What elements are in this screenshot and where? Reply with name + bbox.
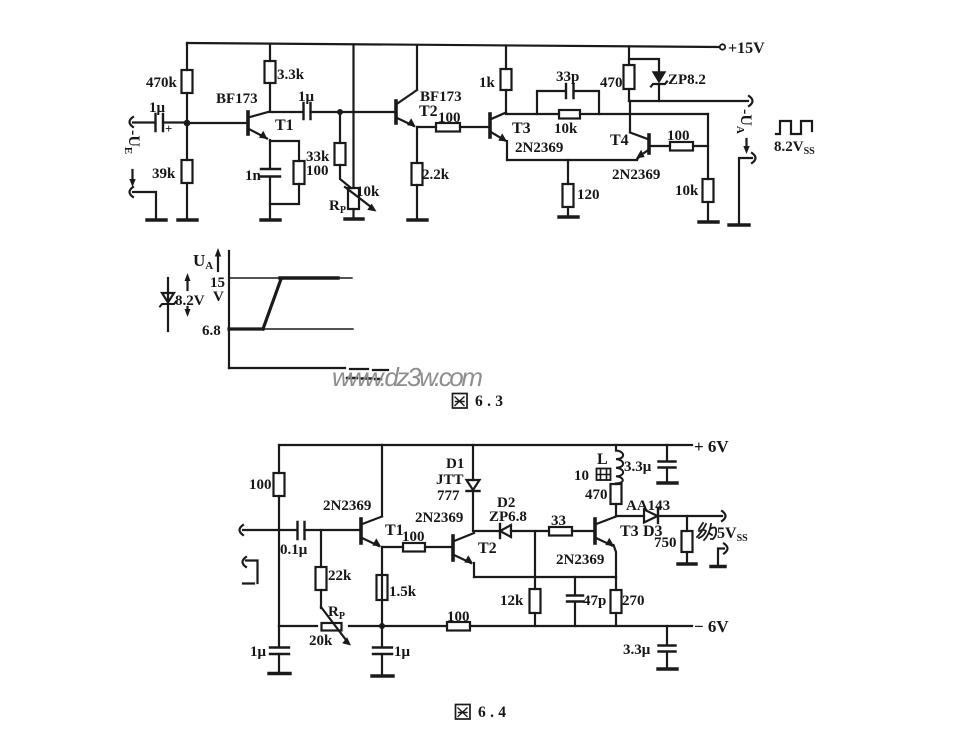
wire zener jog from 470 column xyxy=(629,59,659,71)
resistor 270 xyxy=(611,590,622,613)
svg-text:1k: 1k xyxy=(479,75,496,91)
wire cap to T1 base xyxy=(163,121,248,124)
svg-text:12k: 12k xyxy=(500,593,524,609)
resistor 750 xyxy=(682,531,693,552)
svg-text:3.3k: 3.3k xyxy=(277,67,305,83)
wire graph y-axis xyxy=(228,251,230,368)
capacitor 33p xyxy=(566,84,574,98)
svg-text:6.3: 6.3 xyxy=(475,393,503,410)
node +15V terminal xyxy=(720,44,725,49)
capacitor 0.1u xyxy=(298,522,305,539)
ground under 1u left xyxy=(269,672,290,675)
ground under 3.3u top xyxy=(658,481,677,484)
transistor T1 fig64 xyxy=(361,517,382,547)
svg-text:470: 470 xyxy=(585,487,608,503)
svg-text:RP: RP xyxy=(328,604,345,622)
wire output line UA xyxy=(629,100,748,102)
wire 100 to divider node xyxy=(693,145,708,147)
svg-text:100: 100 xyxy=(402,529,425,545)
wire input node to 39k xyxy=(186,123,188,160)
wire 470k to input node xyxy=(186,93,188,123)
wire output line fig64 xyxy=(616,515,644,517)
svg-text:− 6V: − 6V xyxy=(694,617,729,636)
svg-text:2N2369: 2N2369 xyxy=(612,167,660,183)
wire T1 collector to 1u cap xyxy=(270,111,303,113)
svg-text:777: 777 xyxy=(437,488,460,504)
wire T3 emitter down fig64 xyxy=(614,545,617,577)
svg-text:1μ: 1μ xyxy=(394,644,411,660)
ground under 39k xyxy=(178,218,197,221)
svg-text:8.2VSS: 8.2VSS xyxy=(774,139,815,157)
wire D1 to T2 collector xyxy=(472,491,474,531)
svg-text:L: L xyxy=(597,451,608,468)
svg-text:BF173: BF173 xyxy=(216,91,258,107)
capacitor 1u middle xyxy=(373,648,392,655)
wire zener annotation lead xyxy=(167,278,169,331)
node step symbol terminal xyxy=(243,557,247,567)
wire 0.1u to T1 base fig64 xyxy=(305,529,362,531)
wire T1 emitter column fig64 xyxy=(381,547,383,626)
capacitor 3.3u bottom xyxy=(659,646,676,652)
svg-text:T3: T3 xyxy=(512,120,531,137)
resistor 470 xyxy=(624,65,635,89)
wire input to 0.1u xyxy=(243,529,297,531)
wire T4 collector xyxy=(629,101,631,132)
wire UE arrow xyxy=(131,170,133,181)
node UA axis arrowhead xyxy=(215,248,221,257)
resistor 120 xyxy=(563,184,574,207)
svg-text:470: 470 xyxy=(600,75,623,91)
wire 270 branch xyxy=(615,577,617,590)
node rail junction T1 emitter xyxy=(379,623,385,629)
node UA terminal lower xyxy=(752,153,756,163)
diode ZP8.2 zener xyxy=(651,72,667,87)
node span arrowhead up xyxy=(185,273,191,281)
svg-text:+15V: +15V xyxy=(728,40,765,57)
svg-text:39k: 39k xyxy=(152,166,176,182)
ground under Rp xyxy=(345,217,363,220)
svg-text:270: 270 xyxy=(622,593,645,609)
diode D2 zener xyxy=(500,524,511,538)
svg-text:100: 100 xyxy=(249,477,272,493)
ground under input2 xyxy=(147,218,166,221)
node square wave symbol xyxy=(776,121,812,134)
potentiometer RP 10k xyxy=(348,188,359,209)
svg-text:1μ: 1μ xyxy=(250,644,267,660)
svg-text:+ 6V: + 6V xyxy=(694,437,729,456)
wire T3 collector to 1k xyxy=(505,90,507,113)
wire UA axis arrow xyxy=(217,255,219,271)
wire 33 to T3 base fig64 xyxy=(572,530,595,532)
diode D1 xyxy=(467,480,480,491)
wire divider column xyxy=(707,114,709,179)
node span arrowhead down xyxy=(185,309,191,317)
wire T1 emitter to 100 xyxy=(382,546,403,548)
wire 750 to ground xyxy=(686,552,688,563)
wire left column below rail xyxy=(278,626,280,647)
svg-text:AA143: AA143 xyxy=(626,498,670,514)
wire 33k to Rp top xyxy=(340,165,351,188)
svg-text:750: 750 xyxy=(654,535,677,551)
wire graph x-axis xyxy=(229,368,388,370)
capacitor 3.3u top xyxy=(659,462,676,468)
ground under 120 xyxy=(559,215,578,218)
ground under 1u middle xyxy=(372,674,393,677)
wire 470k column top xyxy=(186,43,188,70)
svg-text:1μ: 1μ xyxy=(298,89,315,105)
inductor L xyxy=(616,451,623,484)
wire 2.2k to ground xyxy=(416,185,418,219)
svg-text:D1: D1 xyxy=(446,456,464,472)
svg-text:2N2369: 2N2369 xyxy=(556,552,604,568)
ground under 3.3u bottom xyxy=(658,667,677,670)
svg-text:100: 100 xyxy=(667,128,690,144)
wire top +6V rail xyxy=(279,444,692,446)
resistor 33k xyxy=(335,143,346,165)
svg-text:-UE: -UE xyxy=(122,130,142,154)
resistor 39k xyxy=(182,160,193,183)
resistor 22k xyxy=(316,567,327,590)
ground under 10k xyxy=(699,220,718,223)
wire 22k branch xyxy=(320,530,322,567)
resistor 100 left xyxy=(274,473,285,496)
wire waveform high segment xyxy=(280,276,338,279)
wire 3.3u top branch xyxy=(666,445,668,461)
wire emitter coupling line xyxy=(507,159,637,161)
svg-text:0.1μ: 0.1μ xyxy=(280,542,308,558)
svg-text:JTT: JTT xyxy=(436,472,464,488)
capacitor 1u coupling xyxy=(304,103,311,119)
wire input2 to ground xyxy=(133,192,156,219)
svg-text:2N2369: 2N2369 xyxy=(515,140,563,156)
svg-text:470k: 470k xyxy=(146,75,178,91)
wire D1 column xyxy=(472,445,474,480)
wire level line 6.8 xyxy=(263,328,353,330)
resistor 470 fig64 xyxy=(611,484,622,504)
capacitor 1n xyxy=(261,169,280,177)
svg-text:5VSS: 5VSS xyxy=(717,525,748,544)
svg-text:100: 100 xyxy=(447,609,470,625)
node output terminal fig64 xyxy=(722,511,726,521)
svg-text:3.3μ: 3.3μ xyxy=(623,642,651,658)
wire emitter to 100 resistor branch xyxy=(270,141,299,161)
capacitor 1u left xyxy=(270,648,289,655)
svg-text:ZP8.2: ZP8.2 xyxy=(668,72,706,88)
wire waveform rising edge xyxy=(263,279,281,329)
resistor 3.3k xyxy=(265,61,276,83)
svg-text:6.4: 6.4 xyxy=(478,704,506,721)
label turns glyph xyxy=(597,469,611,481)
wire span arrow up xyxy=(186,279,188,290)
svg-text:100: 100 xyxy=(306,163,329,179)
resistor 100 T4 base xyxy=(670,142,693,151)
node input terminal 1 xyxy=(130,117,134,127)
wire input to cap xyxy=(133,121,155,123)
resistor 1.5k xyxy=(377,575,388,600)
wire 100 resistor to 1n bottom xyxy=(270,184,299,204)
resistor 10k feedback xyxy=(559,110,580,119)
wire D3 to output terminal xyxy=(658,515,722,517)
svg-text:2N2369: 2N2369 xyxy=(415,510,463,526)
wire 22k to rail xyxy=(320,590,322,608)
wire 120 branch xyxy=(567,160,569,184)
svg-text:33: 33 xyxy=(551,513,566,529)
wire zener to output line xyxy=(658,84,660,101)
ground under UA xyxy=(729,223,749,226)
wire 100 to T2 base fig64 xyxy=(425,546,453,548)
wire axis artifact dashes xyxy=(347,378,381,379)
wire bottom rail segment 3 xyxy=(470,625,692,627)
resistor 10k divider xyxy=(703,179,714,202)
svg-text:RP: RP xyxy=(329,198,346,216)
svg-text:V: V xyxy=(213,289,224,305)
svg-text:T3: T3 xyxy=(620,523,639,540)
capacitor 47p xyxy=(567,596,583,602)
wire T2 collector to rail xyxy=(416,45,418,89)
svg-text:-UA: -UA xyxy=(734,109,754,134)
ground under 750 xyxy=(678,562,696,565)
svg-text:2.2k: 2.2k xyxy=(422,167,450,183)
ground under 2.2k xyxy=(408,218,427,221)
wire Rp arrow fig64 xyxy=(321,607,346,640)
wire 100 to T3 base xyxy=(460,126,490,128)
svg-text:1.5k: 1.5k xyxy=(389,584,417,600)
wire 1u left to ground xyxy=(278,654,280,673)
node UE arrowhead xyxy=(129,179,135,187)
label approx 5Vss glyph xyxy=(697,523,716,540)
node 33k branch junction xyxy=(337,109,343,115)
wire D2 to 33 xyxy=(511,530,549,532)
wire lower terminal to ground xyxy=(718,549,724,566)
wire L to rail xyxy=(615,445,617,484)
wire T1 collector to rail fig64 xyxy=(381,445,383,516)
svg-text:UA: UA xyxy=(193,251,213,272)
transistor T2 fig64 xyxy=(453,533,474,564)
wire bottom rail segment 2 xyxy=(349,625,447,627)
node Rp arrowhead xyxy=(367,204,376,212)
resistor 100 rail xyxy=(447,622,470,631)
transistor T3 fig64 xyxy=(595,517,616,547)
svg-text:T2: T2 xyxy=(478,540,497,557)
svg-text:2N2369: 2N2369 xyxy=(323,498,371,514)
node input terminal fig64 xyxy=(240,525,244,535)
resistor 100 emitter xyxy=(294,161,305,184)
wire UA lower to ground xyxy=(739,158,752,223)
wire 33k branch top xyxy=(339,112,341,143)
wire 470 to output line xyxy=(628,89,630,101)
resistor 100 T1-T2 xyxy=(403,543,425,552)
wire T3 emitter down xyxy=(506,141,508,160)
node UA terminal upper xyxy=(749,96,753,106)
node input junction xyxy=(184,120,191,127)
diode D3 AA143 xyxy=(644,509,658,523)
diode zener annotation xyxy=(160,293,176,307)
wire 750 branch xyxy=(686,516,688,531)
wire 1u middle to ground xyxy=(381,654,383,675)
svg-text:8.2V: 8.2V xyxy=(175,293,205,309)
node step waveform symbol xyxy=(243,561,258,584)
svg-text:20k: 20k xyxy=(309,633,333,649)
wire left column upper xyxy=(278,445,280,473)
wire 3.3u top to ground xyxy=(666,468,668,482)
svg-text:10k: 10k xyxy=(554,121,578,137)
wire 1k to rail xyxy=(505,46,507,70)
svg-text:120: 120 xyxy=(577,187,600,203)
svg-text:1μ: 1μ xyxy=(149,100,166,116)
wire 47p branch xyxy=(574,577,576,595)
resistor 470k xyxy=(182,70,193,93)
resistor 1k xyxy=(501,69,512,90)
wire 12k to rail xyxy=(534,613,536,626)
svg-text:T2: T2 xyxy=(419,103,438,120)
wire 3.3u bottom to ground xyxy=(666,652,668,668)
wire left column lower xyxy=(278,496,280,626)
wire bottom -6V rail segment 1 xyxy=(279,625,317,627)
svg-text:1n: 1n xyxy=(245,168,262,184)
wire T4 base to 100 xyxy=(649,145,670,147)
potentiometer RP 20k xyxy=(322,623,342,631)
transistor T4 xyxy=(630,133,649,159)
wire emitter line fig64 xyxy=(474,576,616,578)
wire T2 emitter node xyxy=(416,127,418,163)
wire Rp column from rail xyxy=(352,45,354,189)
wire 120 to ground xyxy=(567,207,569,216)
svg-text:33p: 33p xyxy=(556,69,579,85)
svg-text:6.8: 6.8 xyxy=(202,323,221,339)
svg-text:3.3μ: 3.3μ xyxy=(624,459,652,475)
wire T3 collector feedback line xyxy=(506,113,708,115)
svg-text:22k: 22k xyxy=(328,568,352,584)
wire UA arrow xyxy=(745,139,747,148)
wire 1u cap to T2 base xyxy=(311,111,397,113)
svg-text:ZP6.8: ZP6.8 xyxy=(489,509,527,525)
node Rp arrowhead fig64 xyxy=(342,637,351,645)
node input terminal 2 xyxy=(130,187,134,197)
wire T1 emitter column xyxy=(269,140,271,168)
resistor 2.2k xyxy=(412,163,423,185)
label figure 6.4 caption glyph xyxy=(456,705,471,720)
wire 1n to ground xyxy=(269,177,271,219)
wire 3.3k to T1 collector xyxy=(269,83,271,111)
wire 10k to ground xyxy=(707,202,709,221)
wire T2 emitter to 100 xyxy=(417,126,436,128)
wire Rp to ground xyxy=(352,209,354,218)
resistor 33 xyxy=(549,527,572,536)
node UA arrowhead xyxy=(743,146,749,154)
resistor 100 base T3 xyxy=(436,123,460,132)
wire span arrow down xyxy=(186,307,188,311)
wire waveform low segment xyxy=(229,327,263,330)
svg-text:www.dz3w.com: www.dz3w.com xyxy=(332,362,483,392)
svg-text:47p: 47p xyxy=(583,593,606,609)
wire below rail to 1u xyxy=(381,626,383,647)
wire Rp arrow xyxy=(345,187,371,207)
capacitor 1u input xyxy=(156,114,164,131)
svg-text:10k: 10k xyxy=(675,183,699,199)
ground under lower terminal xyxy=(711,565,725,568)
svg-text:100: 100 xyxy=(438,110,461,126)
svg-text:10k: 10k xyxy=(356,184,380,200)
wire 3.3k column xyxy=(269,44,271,61)
svg-text:10: 10 xyxy=(574,468,589,484)
svg-text:T1: T1 xyxy=(385,522,404,539)
wire 47p to rail xyxy=(574,602,576,626)
label figure 6.3 caption glyph xyxy=(453,394,468,409)
transistor T1 xyxy=(248,112,270,140)
svg-text:T1: T1 xyxy=(275,117,294,134)
transistor T2 xyxy=(396,90,417,127)
svg-text:T4: T4 xyxy=(610,132,629,149)
wire level line 15 xyxy=(229,277,352,279)
node lower terminal fig64 xyxy=(724,544,728,554)
ground under 1n xyxy=(261,218,280,221)
resistor 12k xyxy=(530,589,541,613)
wire 33p loop xyxy=(537,91,599,114)
wire 270 to rail xyxy=(615,613,617,626)
wire 12k branch xyxy=(534,531,536,589)
wire T4 emitter to coupling line xyxy=(637,157,639,160)
transistor T3 xyxy=(490,113,507,142)
wire 39k to ground xyxy=(186,183,188,219)
wire top +15V rail xyxy=(187,43,719,47)
wire T3 collector up xyxy=(615,504,617,516)
wire T2 emitter down xyxy=(473,563,475,577)
wire 3.3u bottom branch xyxy=(666,626,668,645)
wire T2 collector node line xyxy=(474,530,500,532)
wire 470 column from rail xyxy=(628,47,630,66)
